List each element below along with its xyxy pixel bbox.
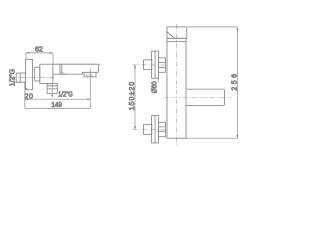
- spout collar: [60, 64, 62, 74]
- Ø60 leader: [157, 78, 159, 82]
- right view vertical centerline: [175, 24, 177, 146]
- outlet axis line: [51, 84, 53, 98]
- svg-text:256: 256: [231, 74, 238, 91]
- handle lever arc: [166, 31, 168, 33]
- lower stub centerline: [132, 129, 167, 131]
- upper stub centerline: [132, 64, 167, 66]
- lower wall stub: [144, 125, 152, 135]
- connection nut: [35, 67, 40, 81]
- aerator housing: [84, 72, 96, 77]
- body top flange line: [167, 40, 186, 42]
- lower escutcheon face line: [154, 116, 156, 143]
- svg-text:20: 20: [25, 94, 33, 101]
- wall plate (escutcheon side): [26, 59, 33, 90]
- stub joint line: [19, 73, 21, 82]
- column body: [167, 38, 186, 138]
- upper nut: [159, 58, 166, 72]
- upper escutcheon face line: [154, 51, 156, 78]
- lower escutcheon: [152, 116, 159, 143]
- lower nut: [159, 122, 166, 136]
- outlet axis tick: [51, 95, 54, 97]
- arm centerline: [163, 97, 232, 99]
- svg-text:150±20: 150±20: [129, 82, 136, 111]
- handle block: [167, 27, 187, 38]
- upper wall stub: [144, 60, 152, 70]
- wall pipe stub: [16, 73, 25, 82]
- dimension 150±20 line: [134, 65, 136, 130]
- bottom outlet: [47, 83, 57, 93]
- dimension 256: [186, 27, 238, 138]
- upper escutcheon: [152, 51, 159, 78]
- svg-text:62: 62: [35, 46, 43, 53]
- mixer body side: [40, 64, 53, 83]
- dimension 149 box: [25, 69, 91, 108]
- stub bottom extension: [14, 81, 26, 83]
- spout arm front: [186, 89, 224, 105]
- svg-text:Ø60: Ø60: [152, 81, 159, 93]
- lower nut flats: [159, 127, 166, 131]
- handle chamfer: [167, 32, 175, 39]
- aerator dashed: [87, 75, 93, 77]
- left view centerline: [12, 77, 55, 79]
- spout fillet: [62, 71, 67, 74]
- svg-text:1/2"G: 1/2"G: [58, 92, 73, 99]
- dimension 62: [26, 52, 53, 64]
- svg-text:149: 149: [51, 102, 61, 109]
- dimension 20 tick: [25, 87, 28, 89]
- dimension 20/149 left extension: [24, 82, 26, 108]
- upper nut flats: [159, 63, 166, 68]
- spout outline: [53, 64, 99, 74]
- svg-text:1/2"G: 1/2"G: [9, 69, 16, 86]
- outlet ridge lines: [47, 86, 59, 89]
